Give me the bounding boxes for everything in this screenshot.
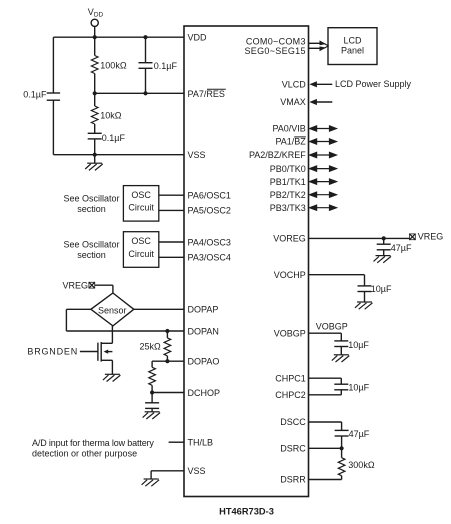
svg-text:10µF: 10µF bbox=[348, 383, 369, 393]
svg-text:VMAX: VMAX bbox=[280, 97, 306, 107]
svg-text:VREG: VREG bbox=[418, 231, 444, 241]
svg-text:COM0~COM3: COM0~COM3 bbox=[246, 37, 306, 47]
svg-text:detection or other purpose: detection or other purpose bbox=[32, 449, 137, 459]
svg-text:VREG: VREG bbox=[62, 280, 88, 290]
svg-text:300kΩ: 300kΩ bbox=[348, 460, 375, 470]
svg-text:VOBGP: VOBGP bbox=[274, 329, 306, 339]
svg-text:0.1µF: 0.1µF bbox=[154, 61, 178, 71]
svg-text:VDD: VDD bbox=[188, 33, 208, 43]
svg-text:47µF: 47µF bbox=[349, 429, 370, 439]
svg-text:DOPAP: DOPAP bbox=[188, 305, 219, 315]
svg-text:VOBGP: VOBGP bbox=[316, 322, 348, 332]
svg-text:section: section bbox=[77, 204, 106, 214]
svg-text:PB2/TK2: PB2/TK2 bbox=[270, 190, 306, 200]
svg-text:47µF: 47µF bbox=[391, 243, 412, 253]
svg-text:DSRR: DSRR bbox=[280, 475, 306, 485]
svg-text:10µF: 10µF bbox=[348, 340, 369, 350]
svg-text:VLCD: VLCD bbox=[282, 80, 307, 90]
svg-text:DSRC: DSRC bbox=[280, 444, 306, 454]
svg-text:OSC: OSC bbox=[131, 190, 151, 200]
svg-text:DSCC: DSCC bbox=[280, 417, 306, 427]
svg-text:PA1/BZ: PA1/BZ bbox=[275, 137, 306, 147]
svg-text:CHPC2: CHPC2 bbox=[275, 390, 306, 400]
svg-text:PB1/TK1: PB1/TK1 bbox=[270, 177, 306, 187]
svg-text:PA5/OSC2: PA5/OSC2 bbox=[188, 206, 231, 216]
svg-text:LCD: LCD bbox=[343, 35, 362, 45]
svg-text:PA6/OSC1: PA6/OSC1 bbox=[188, 191, 231, 201]
svg-text:100kΩ: 100kΩ bbox=[100, 60, 127, 70]
svg-text:0.1µF: 0.1µF bbox=[102, 133, 126, 143]
svg-text:VOREG: VOREG bbox=[273, 234, 306, 244]
svg-text:VOCHP: VOCHP bbox=[274, 270, 306, 280]
svg-text:VDD: VDD bbox=[88, 7, 104, 19]
svg-text:See Oscillator: See Oscillator bbox=[63, 194, 119, 204]
svg-text:PA3/OSC4: PA3/OSC4 bbox=[188, 253, 231, 263]
svg-text:section: section bbox=[77, 250, 106, 260]
svg-text:DOPAO: DOPAO bbox=[188, 357, 220, 367]
svg-text:PA0/VIB: PA0/VIB bbox=[272, 124, 305, 134]
svg-text:Circuit: Circuit bbox=[128, 249, 154, 259]
svg-text:SEG0~SEG15: SEG0~SEG15 bbox=[245, 46, 306, 56]
svg-text:CHPC1: CHPC1 bbox=[275, 373, 306, 383]
svg-text:PB3/TK3: PB3/TK3 bbox=[270, 203, 306, 213]
svg-text:Sensor: Sensor bbox=[98, 305, 127, 315]
svg-text:PA7/RES: PA7/RES bbox=[188, 89, 225, 99]
svg-text:10kΩ: 10kΩ bbox=[100, 110, 122, 120]
svg-text:PB0/TK0: PB0/TK0 bbox=[270, 164, 306, 174]
svg-text:HT46R73D-3: HT46R73D-3 bbox=[219, 506, 274, 516]
svg-text:PA2/BZ/KREF: PA2/BZ/KREF bbox=[249, 150, 306, 160]
svg-text:10µF: 10µF bbox=[371, 284, 392, 294]
svg-text:OSC: OSC bbox=[131, 236, 151, 246]
svg-text:DCHOP: DCHOP bbox=[188, 388, 221, 398]
svg-text:PA4/OSC3: PA4/OSC3 bbox=[188, 237, 231, 247]
svg-text:Circuit: Circuit bbox=[128, 203, 154, 213]
svg-text:BRGNDEN: BRGNDEN bbox=[27, 346, 78, 356]
svg-text:A/D input for therma low batte: A/D input for therma low battery bbox=[32, 438, 154, 448]
svg-text:25kΩ: 25kΩ bbox=[140, 341, 162, 351]
svg-text:0.1µF: 0.1µF bbox=[23, 90, 47, 100]
svg-text:Panel: Panel bbox=[341, 46, 364, 56]
svg-text:TH/LB: TH/LB bbox=[188, 438, 214, 448]
svg-text:DOPAN: DOPAN bbox=[188, 326, 219, 336]
svg-text:VSS: VSS bbox=[188, 150, 206, 160]
svg-text:See Oscillator: See Oscillator bbox=[63, 240, 119, 250]
svg-text:VSS: VSS bbox=[188, 466, 206, 476]
svg-text:LCD Power Supply: LCD Power Supply bbox=[335, 79, 412, 89]
